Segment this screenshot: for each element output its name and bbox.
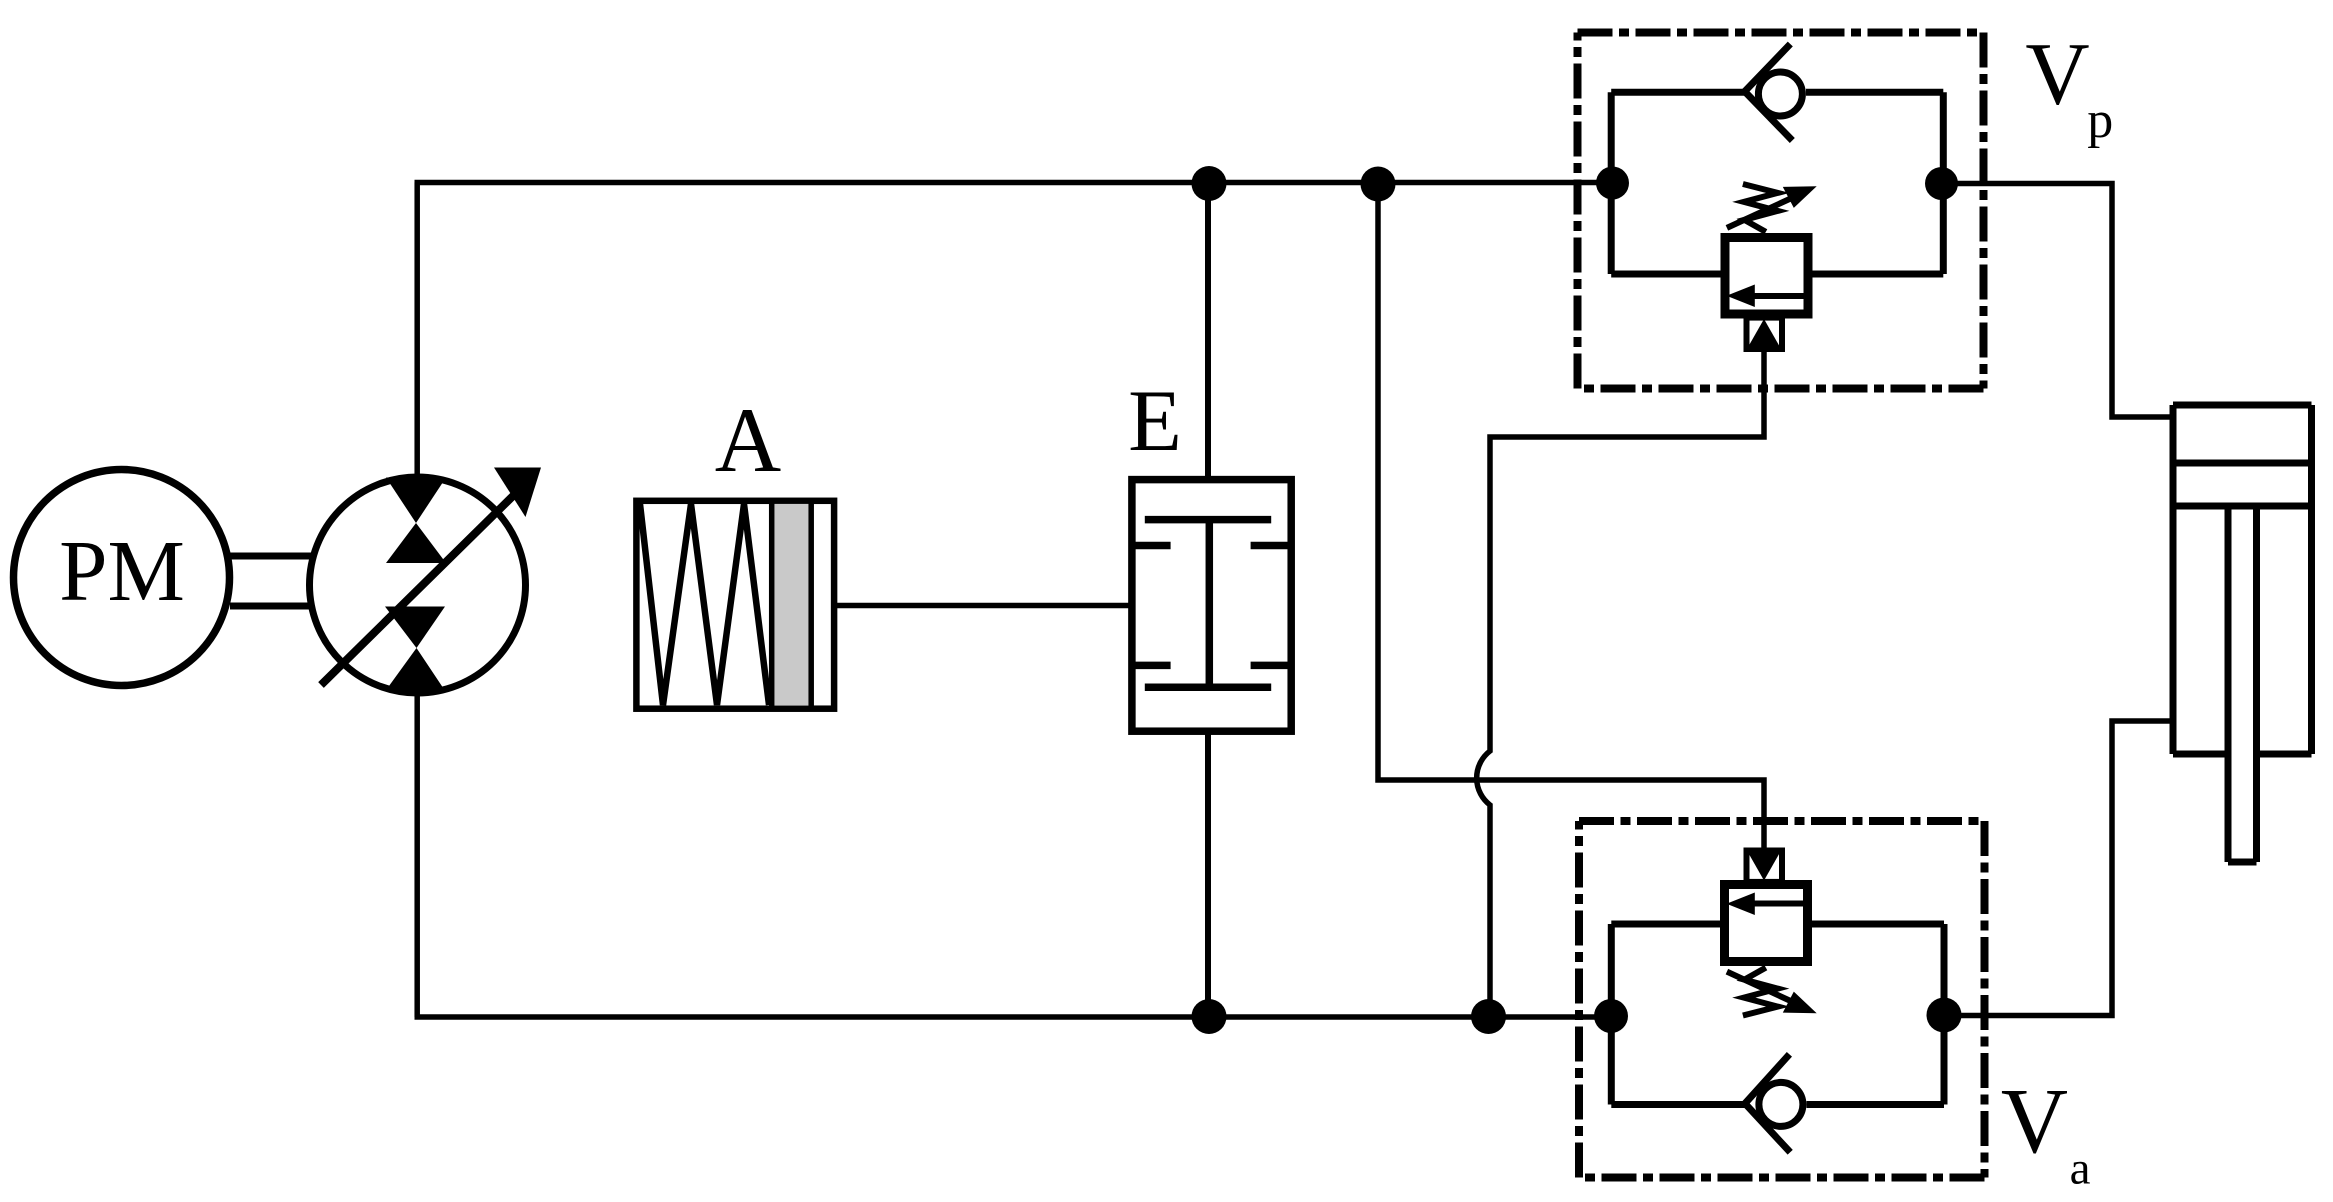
wire: top rail — [415, 180, 1613, 186]
node: Vp right — [1925, 167, 1958, 200]
wire: left vertical from pump to bottom rail — [414, 690, 420, 1017]
hydraulic cylinder: rod — [2225, 506, 2232, 862]
hydraulic cylinder: piston line — [2173, 503, 2312, 510]
wire: E bottom connection — [1205, 731, 1211, 1017]
accumulator A: spring zigzag — [640, 504, 769, 705]
wire: Vp right node to cylinder top port — [1942, 184, 2174, 418]
wire: top rail to Va pilot (down, right, down) — [1378, 183, 1764, 851]
node: top rail / E branch — [1192, 166, 1227, 201]
Va relief valve: spring — [1743, 968, 1778, 1016]
wire: E top connection — [1205, 183, 1211, 481]
node: top rail / Vp left — [1596, 167, 1629, 200]
Va check valve: seat — [1745, 1054, 1790, 1152]
node: bottom rail / pilot branch — [1471, 999, 1506, 1034]
pump P1: bottom flow triangle pair — [385, 607, 445, 649]
node: Va right — [1927, 998, 1962, 1033]
Va check valve: circle — [1759, 1082, 1803, 1126]
wire: left vertical from top rail to pump — [414, 183, 420, 481]
Va relief valve: internal flow arrow — [1752, 901, 1805, 907]
svg-text:p: p — [2087, 92, 2113, 149]
hydraulic cylinder: barrel — [2173, 405, 2312, 862]
element E: outer box — [1132, 480, 1291, 732]
pump P1: variability arrow shaft — [321, 492, 517, 685]
element E: lower side ticks — [1132, 662, 1171, 670]
Va loop wiring — [1611, 924, 1944, 1105]
svg-text:PM: PM — [59, 522, 185, 619]
Vp relief valve: spring — [1743, 184, 1778, 232]
shaft coupling (two lines) — [230, 556, 311, 606]
element E: upper side ticks — [1132, 542, 1171, 550]
wire: rod link from A to E — [837, 603, 1131, 609]
element E: center stem — [1206, 520, 1214, 688]
svg-text:V: V — [2025, 25, 2089, 123]
Vp loop wiring — [1611, 92, 1943, 274]
pump P1: variable displacement pump circle — [310, 477, 526, 693]
valve module Va: dash-dot enclosure — [1579, 821, 1985, 1178]
svg-text:a: a — [2070, 1143, 2091, 1195]
wire: Vp pilot to bottom rail with crossover hop — [1477, 349, 1764, 1017]
node: bottom rail / Va left — [1594, 999, 1628, 1033]
Vp relief valve: body box — [1725, 238, 1808, 315]
Vp relief valve: internal flow arrow — [1752, 293, 1805, 299]
Va relief valve: adjustment arrow — [1727, 972, 1795, 1003]
Vp relief valve: adjustment arrow — [1727, 197, 1795, 228]
Va relief valve: pilot box with triangle — [1747, 851, 1783, 882]
accumulator A: piston plate (gray) — [774, 504, 808, 706]
Vp check valve: seat — [1745, 44, 1793, 141]
svg-text:A: A — [715, 389, 781, 491]
element E: inner top bar — [1145, 516, 1271, 524]
hydraulic cylinder: cap line — [2173, 460, 2312, 467]
valve module Vp: dash-dot enclosure — [1578, 33, 1984, 389]
svg-text:E: E — [1128, 373, 1182, 470]
Vp relief valve: pilot box with triangle — [1747, 318, 1783, 349]
svg-text:V: V — [2001, 1070, 2068, 1173]
pump P1: variability arrowhead — [494, 468, 541, 518]
pump P1: top flow triangle pair — [386, 478, 446, 524]
wire: Va right node to cylinder bottom port — [1944, 721, 2173, 1016]
node: top rail / pilot branch — [1361, 167, 1396, 202]
element E: inner bottom bar — [1145, 684, 1271, 692]
accumulator A: outer box — [636, 501, 834, 709]
wire: bottom rail — [415, 1014, 1612, 1020]
node: bottom rail / E branch — [1192, 999, 1227, 1034]
prime mover PM circle — [14, 470, 230, 686]
Vp check valve: circle — [1758, 72, 1802, 116]
Va relief valve: body box — [1725, 885, 1808, 962]
